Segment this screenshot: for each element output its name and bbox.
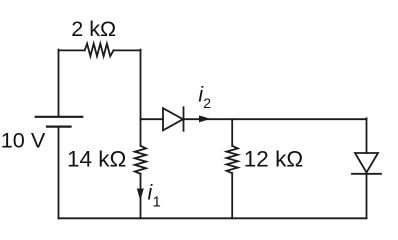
battery V1 short plate: [47, 125, 71, 127]
svg-text:1: 1: [153, 194, 161, 211]
diode D2 triangle: [355, 153, 378, 173]
current arrow i2 head: [199, 115, 211, 122]
wire top-left segment: [59, 49, 85, 51]
battery V1 long plate: [36, 116, 83, 118]
wire 12k branch upper: [231, 119, 233, 146]
wire middle branch lower: [140, 174, 142, 219]
svg-text:14 kΩ: 14 kΩ: [67, 147, 126, 172]
wire right branch lower: [366, 174, 368, 219]
wire middle row right: [184, 118, 367, 120]
resistor R1 2 kΩ zigzag: [85, 44, 114, 57]
svg-text:12 kΩ: 12 kΩ: [244, 147, 303, 172]
wire 12k branch lower: [231, 173, 233, 218]
diode D1 triangle: [163, 108, 183, 130]
diode D1 cathode bar: [183, 107, 185, 131]
wire middle branch upper: [140, 50, 142, 146]
svg-text:2: 2: [203, 95, 211, 111]
resistor R3 12 kΩ zigzag: [227, 146, 238, 173]
diode D2 cathode bar: [352, 173, 381, 175]
svg-text:2 kΩ: 2 kΩ: [71, 16, 116, 41]
wire right branch upper: [366, 118, 368, 153]
wire left vertical upper: [58, 50, 60, 116]
wire left vertical lower: [58, 127, 60, 219]
wire middle row left: [141, 118, 164, 120]
current arrow i1 head: [137, 189, 144, 201]
resistor R2 14 kΩ zigzag: [135, 146, 146, 174]
wire bottom: [59, 217, 367, 219]
svg-text:10 V: 10 V: [1, 128, 46, 153]
wire top-right segment: [114, 49, 141, 51]
